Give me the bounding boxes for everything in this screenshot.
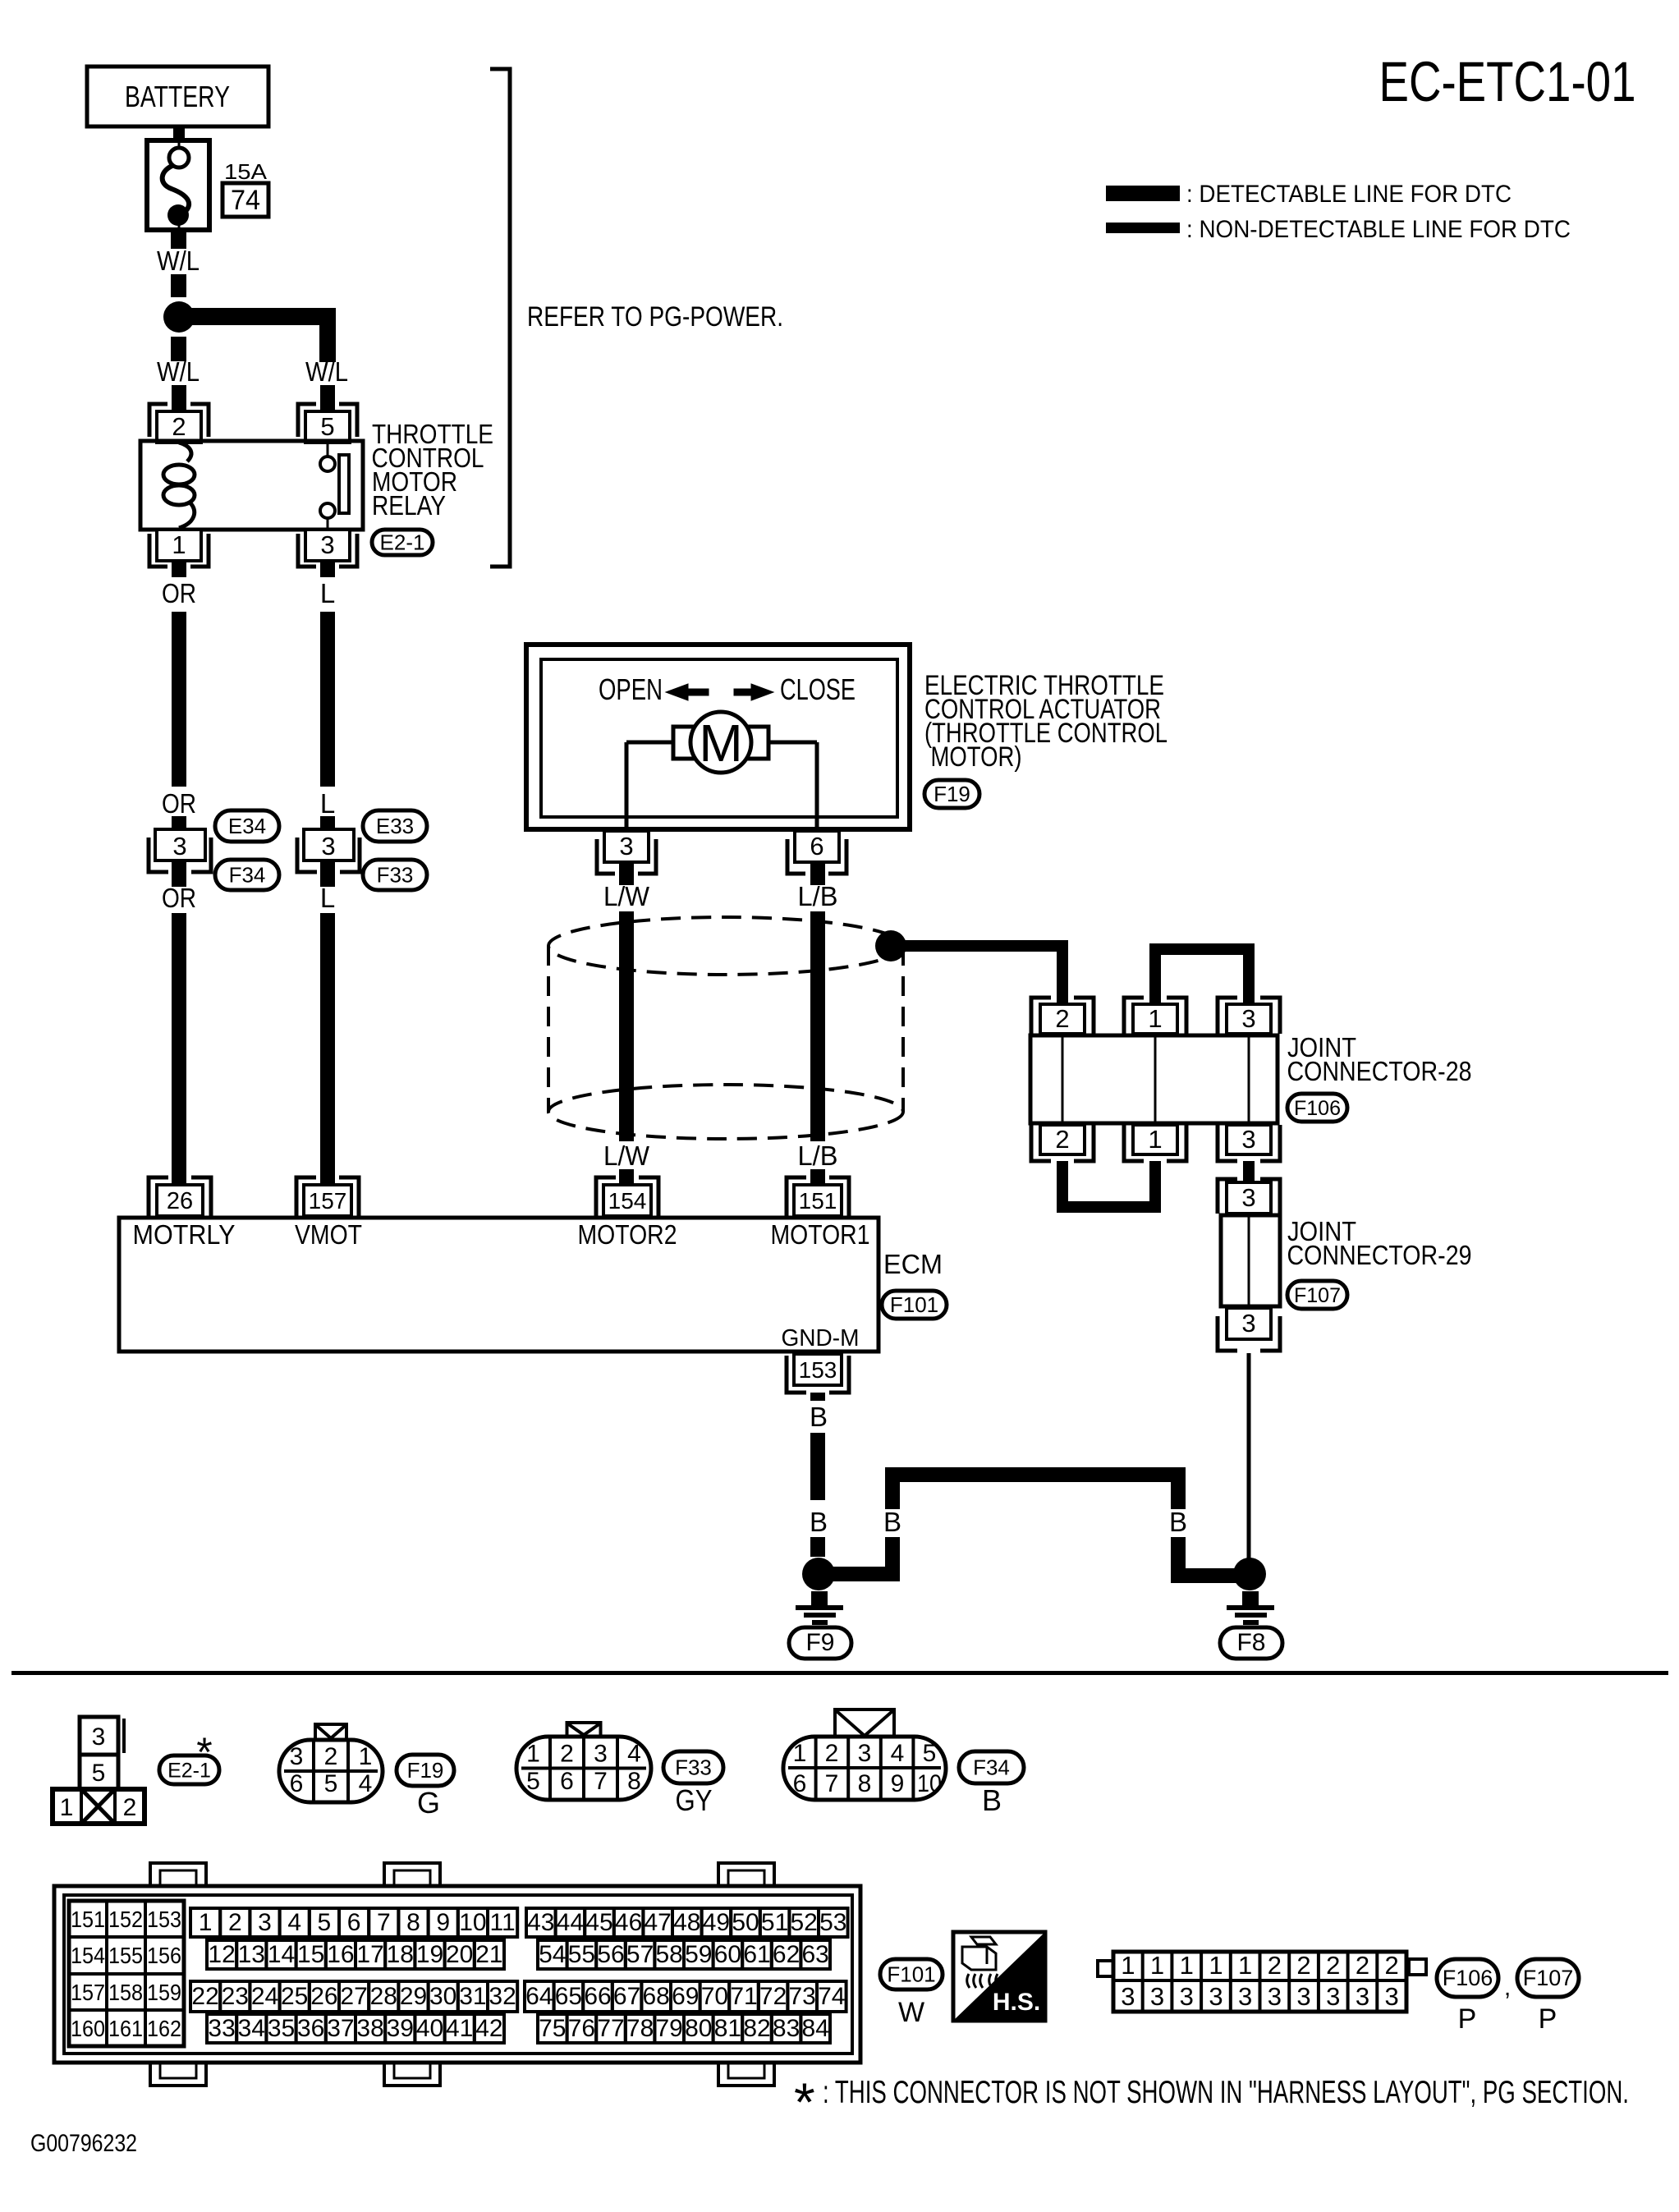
wire W/L node to relay pin 2	[171, 337, 186, 361]
actuator pin 6	[787, 831, 846, 874]
svg-text:74: 74	[231, 185, 260, 216]
ECM connector pins 75-84	[538, 2014, 830, 2043]
svg-text:34: 34	[238, 2015, 265, 2042]
svg-text:46: 46	[615, 1909, 642, 1936]
JC28 bottom pin 1	[1124, 1125, 1186, 1161]
svg-text:L/B: L/B	[798, 881, 838, 911]
wire OR relay pin1 down	[172, 559, 186, 577]
svg-text:50: 50	[732, 1909, 759, 1936]
svg-text:40: 40	[416, 2015, 443, 2042]
svg-text:3: 3	[1268, 1982, 1282, 2011]
label B 2	[810, 1507, 828, 1537]
svg-text:17: 17	[356, 1941, 383, 1968]
svg-text:F106: F106	[1443, 1966, 1493, 1990]
svg-text:F33: F33	[377, 863, 414, 888]
svg-text:5: 5	[324, 1770, 338, 1797]
ECM pin 26 MOTRLY	[149, 1177, 211, 1216]
wire L into connector E33	[320, 816, 335, 831]
svg-text:23: 23	[222, 1983, 249, 2010]
relay label	[372, 419, 494, 521]
relay connector E2-1	[372, 530, 433, 555]
svg-text:36: 36	[297, 2015, 324, 2042]
svg-text:72: 72	[759, 1983, 787, 2010]
svg-text:G00796232: G00796232	[30, 2130, 137, 2157]
svg-text:159: 159	[147, 1980, 181, 2005]
legend non-detectable line	[1106, 216, 1571, 243]
label L/B	[798, 881, 838, 911]
svg-text:12: 12	[208, 1941, 235, 1968]
ECM connector view outline	[54, 1863, 860, 2086]
svg-text:OR: OR	[162, 883, 196, 913]
figure id G00796232	[30, 2130, 137, 2157]
svg-text:28: 28	[370, 1983, 397, 2010]
svg-text:15A: 15A	[224, 159, 268, 184]
svg-text:162: 162	[147, 2016, 181, 2041]
fuse rating 15A	[224, 159, 268, 184]
separator line	[11, 1671, 1668, 1675]
svg-text:MOTOR1: MOTOR1	[771, 1219, 870, 1250]
svg-text:MOTRLY: MOTRLY	[133, 1219, 236, 1250]
svg-text:61: 61	[743, 1941, 770, 1968]
svg-text:G: G	[417, 1786, 440, 1820]
svg-text:3: 3	[172, 832, 186, 860]
label W/L	[157, 246, 200, 276]
wire OR to ECM pin 26	[172, 913, 186, 1185]
svg-text:F107: F107	[1294, 1284, 1341, 1307]
JC28 top pin 2	[1031, 998, 1094, 1034]
svg-text:14: 14	[268, 1941, 295, 1968]
svg-text:3: 3	[619, 832, 633, 860]
JC29 bottom pin 3	[1218, 1308, 1280, 1351]
svg-text:39: 39	[387, 2015, 414, 2042]
svg-text:3: 3	[1241, 1004, 1255, 1033]
svg-text:25: 25	[281, 1983, 308, 2010]
wire JC29 to ground F8	[1247, 1353, 1251, 1565]
ground F9	[796, 1591, 843, 1625]
svg-text:2: 2	[1055, 1125, 1069, 1154]
svg-text:5: 5	[526, 1768, 540, 1795]
svg-text:58: 58	[656, 1941, 683, 1968]
svg-text:67: 67	[613, 1983, 640, 2010]
svg-text:18: 18	[387, 1941, 414, 1968]
svg-text:10: 10	[917, 1770, 942, 1797]
actuator box outer	[526, 645, 910, 829]
svg-text:26: 26	[310, 1983, 337, 2010]
svg-text:L: L	[320, 578, 335, 608]
JC28 bottom pin 2	[1031, 1125, 1094, 1161]
svg-text:81: 81	[714, 2015, 741, 2042]
svg-text:77: 77	[597, 2015, 624, 2042]
ground F8	[1227, 1591, 1274, 1625]
svg-text:3: 3	[1296, 1982, 1310, 2011]
svg-text:56: 56	[597, 1941, 624, 1968]
svg-text:BATTERY: BATTERY	[125, 80, 230, 113]
connector view F19	[279, 1724, 383, 1802]
actuator box inner	[541, 659, 897, 817]
ECM box	[119, 1218, 878, 1352]
svg-text:: NON-DETECTABLE LINE FOR DTC: : NON-DETECTABLE LINE FOR DTC	[1186, 216, 1571, 243]
svg-text:153: 153	[147, 1907, 181, 1932]
svg-text:78: 78	[626, 2015, 654, 2042]
wire B from pin 153	[810, 1393, 825, 1401]
svg-text:B: B	[810, 1507, 828, 1537]
svg-text:M: M	[699, 714, 742, 773]
connector view E2-1	[53, 1717, 145, 1824]
svg-text:3: 3	[258, 1909, 272, 1936]
svg-text:1: 1	[1209, 1951, 1223, 1980]
svg-text:3: 3	[1209, 1982, 1223, 2011]
relay switch contact	[320, 441, 349, 530]
svg-text:33: 33	[208, 2015, 235, 2042]
legend detectable line	[1106, 181, 1512, 208]
label W/L left	[157, 356, 200, 387]
svg-text:1: 1	[172, 530, 186, 559]
ECM connector pins 43-53	[526, 1908, 848, 1937]
svg-text:10: 10	[459, 1909, 486, 1936]
svg-text:EC-ETC1-01: EC-ETC1-01	[1379, 50, 1636, 113]
svg-text:6: 6	[560, 1768, 574, 1795]
connector E33/F33 pin 3	[297, 829, 360, 872]
svg-text:59: 59	[685, 1941, 712, 1968]
svg-text:3: 3	[594, 1741, 608, 1768]
svg-text:2: 2	[324, 1743, 338, 1770]
svg-text:F19: F19	[934, 782, 970, 806]
wire L/B long	[810, 911, 825, 1141]
actuator pin 3	[597, 831, 656, 874]
svg-text:3: 3	[1326, 1982, 1340, 2011]
svg-text:3: 3	[858, 1740, 872, 1767]
label L/B 2	[798, 1140, 838, 1171]
svg-text:W/L: W/L	[157, 356, 200, 387]
svg-text:3: 3	[1241, 1309, 1255, 1338]
wire B bridge to F8	[829, 1467, 1236, 1583]
svg-text:30: 30	[429, 1983, 456, 2010]
svg-text:F34: F34	[973, 1755, 1010, 1780]
svg-text:F19: F19	[407, 1758, 444, 1783]
label OR 2	[162, 788, 196, 819]
svg-text:57: 57	[626, 1941, 654, 1968]
svg-text:55: 55	[568, 1941, 595, 1968]
svg-text:6: 6	[347, 1909, 361, 1936]
shield cylinder dashed	[548, 917, 903, 1139]
svg-text:B: B	[883, 1507, 901, 1537]
ECM pin 157 VMOT	[296, 1177, 359, 1216]
ECM connector pins 33-42	[207, 2014, 504, 2043]
motor brush right	[745, 727, 768, 759]
svg-text:F34: F34	[229, 863, 266, 888]
fuse 15A	[147, 140, 209, 230]
JC28 bottom pin 3	[1218, 1125, 1280, 1161]
svg-text:42: 42	[475, 2015, 502, 2042]
svg-text:F8: F8	[1236, 1629, 1265, 1656]
svg-text:153: 153	[799, 1357, 837, 1383]
svg-text:F107: F107	[1523, 1966, 1574, 1990]
actuator connector F19	[924, 780, 979, 808]
svg-text:P: P	[1458, 2003, 1477, 2035]
svg-text:53: 53	[819, 1909, 846, 1936]
svg-text:F106: F106	[1294, 1097, 1341, 1120]
svg-text:1: 1	[1238, 1951, 1252, 1980]
svg-text:84: 84	[802, 2015, 829, 2042]
wire battery to fuse	[173, 126, 185, 142]
svg-text:B: B	[810, 1402, 828, 1432]
svg-text:B: B	[982, 1783, 1002, 1817]
ECM connector pins 54-63	[538, 1940, 830, 1969]
label B bridge left	[883, 1507, 901, 1537]
svg-text:REFER TO PG-POWER.: REFER TO PG-POWER.	[527, 301, 783, 333]
wire L/B to ECM pin 151	[810, 1169, 825, 1185]
svg-text:1: 1	[526, 1741, 540, 1768]
svg-text:L/W: L/W	[603, 1140, 650, 1171]
svg-text:83: 83	[773, 2015, 800, 2042]
wire stub into relay pin 2	[172, 385, 186, 413]
svg-text:37: 37	[327, 2015, 354, 2042]
actuator label	[924, 670, 1168, 773]
svg-text:22: 22	[191, 1983, 218, 2010]
relay pin 5	[298, 404, 357, 443]
svg-text:44: 44	[557, 1909, 584, 1936]
svg-text:1: 1	[1180, 1951, 1194, 1980]
svg-text:9: 9	[891, 1770, 905, 1797]
svg-text:160: 160	[71, 2016, 105, 2041]
ECM pin 153 GND-M	[787, 1354, 849, 1393]
svg-text:3: 3	[1150, 1982, 1164, 2011]
svg-text:27: 27	[340, 1983, 367, 2010]
svg-text:74: 74	[818, 1983, 845, 2010]
svg-text:*: *	[794, 2072, 815, 2132]
bracket refer to PG-POWER	[490, 69, 510, 567]
wire OR below connector	[172, 860, 186, 887]
svg-text:66: 66	[584, 1983, 611, 2010]
ECM pin names	[133, 1219, 870, 1250]
svg-text:7: 7	[594, 1768, 608, 1795]
wire JC28 pin3 to JC29	[1243, 1161, 1255, 1182]
battery	[87, 67, 268, 126]
svg-text:54: 54	[539, 1941, 566, 1968]
svg-text:W/L: W/L	[305, 356, 348, 387]
svg-text:73: 73	[789, 1983, 816, 2010]
svg-text:E33: E33	[376, 814, 414, 838]
svg-text:3: 3	[1385, 1982, 1399, 2011]
svg-text:1: 1	[1148, 1125, 1162, 1154]
wire L to ECM pin 157	[320, 913, 335, 1185]
wire B dash	[810, 1537, 825, 1557]
wire L/W stub	[619, 860, 634, 885]
svg-text:3: 3	[1241, 1125, 1255, 1154]
svg-text:151: 151	[799, 1188, 837, 1214]
svg-text:156: 156	[147, 1943, 181, 1968]
JC28 top pin 1	[1124, 998, 1186, 1034]
node shield drain	[875, 930, 906, 961]
svg-text:P: P	[1539, 2003, 1557, 2035]
label L 2	[320, 788, 335, 819]
svg-text:2: 2	[1356, 1951, 1369, 1980]
svg-text:2: 2	[1296, 1951, 1310, 1980]
svg-text:29: 29	[400, 1983, 427, 2010]
svg-text:ECM: ECM	[883, 1249, 943, 1279]
svg-text:F33: F33	[675, 1755, 712, 1780]
wire shield to JC28 pin 2	[891, 940, 1068, 1007]
wire L below connector	[320, 860, 335, 887]
svg-text:*: *	[196, 1729, 212, 1775]
svg-text:B: B	[1169, 1507, 1187, 1537]
JC29 label	[1287, 1216, 1472, 1270]
svg-text:71: 71	[730, 1983, 757, 2010]
JC29 connector F107	[1287, 1281, 1347, 1309]
svg-text:26: 26	[167, 1188, 193, 1214]
ECM connector F101 ref	[880, 1959, 943, 2028]
svg-text:47: 47	[645, 1909, 672, 1936]
ECM connector pins 12-21	[207, 1940, 504, 1969]
wire L/W long	[619, 911, 634, 1141]
svg-text:158: 158	[108, 1980, 143, 2005]
svg-text:2: 2	[172, 412, 186, 441]
wire L/B stub	[810, 860, 825, 885]
svg-text:41: 41	[446, 2015, 473, 2042]
ECM pin 154 MOTOR2	[596, 1177, 658, 1216]
svg-text:19: 19	[416, 1941, 443, 1968]
wire OR long	[172, 612, 186, 787]
wire L/W to ECM pin 154	[619, 1169, 634, 1185]
svg-text:161: 161	[108, 2016, 143, 2041]
svg-text:4: 4	[627, 1741, 641, 1768]
ECM connector pins 22-32	[190, 1981, 517, 2012]
ECM connector left grid pins 151-162	[69, 1901, 184, 2046]
wire L long	[320, 612, 335, 787]
svg-text:1: 1	[1150, 1951, 1164, 1980]
svg-text:H.S.: H.S.	[993, 1989, 1040, 2016]
wire motor right to pin 6	[768, 742, 817, 831]
svg-text:9: 9	[436, 1909, 450, 1936]
label L/W	[603, 881, 650, 911]
svg-text:76: 76	[568, 2015, 595, 2042]
svg-text:155: 155	[108, 1943, 143, 1968]
svg-text:2: 2	[560, 1741, 574, 1768]
svg-text:3: 3	[321, 832, 335, 860]
svg-text:F9: F9	[805, 1629, 834, 1656]
svg-text:69: 69	[672, 1983, 699, 2010]
svg-text:157: 157	[309, 1188, 347, 1214]
svg-text:8: 8	[858, 1770, 872, 1797]
svg-text:2: 2	[1385, 1951, 1399, 1980]
joint connector F107 ref	[1517, 1959, 1579, 1997]
svg-text:3: 3	[1238, 1982, 1252, 2011]
svg-text:152: 152	[108, 1907, 143, 1932]
JC28 connector F106	[1287, 1094, 1347, 1122]
relay pin 1	[149, 530, 209, 567]
H.S. view icon	[953, 1932, 1045, 2021]
note REFER TO PG-POWER	[527, 301, 783, 333]
svg-text:157: 157	[71, 1980, 105, 2005]
motor M	[690, 712, 751, 773]
svg-text:64: 64	[525, 1983, 553, 2010]
svg-text:75: 75	[539, 2015, 566, 2042]
svg-text:15: 15	[297, 1941, 324, 1968]
svg-text:68: 68	[643, 1983, 670, 2010]
svg-text:RELAY: RELAY	[372, 490, 446, 521]
footnote asterisk	[794, 2072, 1629, 2132]
JC28 label	[1287, 1032, 1472, 1086]
svg-text:4: 4	[891, 1740, 905, 1767]
svg-text:5: 5	[92, 1760, 106, 1787]
svg-text:MOTOR2: MOTOR2	[578, 1219, 677, 1250]
svg-text:63: 63	[802, 1941, 829, 1968]
label CLOSE	[780, 672, 856, 706]
svg-text:6: 6	[793, 1770, 807, 1797]
svg-text:32: 32	[489, 1983, 516, 2010]
ECM pin 151 MOTOR1	[787, 1177, 849, 1216]
connector F33 ref	[663, 1751, 723, 1817]
wire motor left to pin 3	[626, 742, 673, 831]
svg-text:2: 2	[825, 1740, 839, 1767]
svg-text:F101: F101	[890, 1292, 938, 1317]
svg-text:35: 35	[268, 2015, 295, 2042]
title EC-ETC1-01	[1379, 50, 1636, 113]
svg-text:48: 48	[673, 1909, 700, 1936]
svg-text:,: ,	[1504, 1974, 1511, 2001]
svg-text:3: 3	[1241, 1183, 1255, 1212]
relay pin 2	[149, 404, 209, 443]
svg-text:: DETECTABLE LINE FOR DTC: : DETECTABLE LINE FOR DTC	[1186, 181, 1512, 208]
wire W/L fuse to node	[171, 230, 186, 297]
connector E34	[215, 810, 279, 842]
svg-text:82: 82	[743, 2015, 770, 2042]
label OPEN	[599, 672, 663, 706]
svg-text:79: 79	[656, 2015, 683, 2042]
joint connector F106 ref	[1437, 1959, 1511, 2001]
svg-text:151: 151	[71, 1907, 105, 1932]
node W/L junction	[163, 301, 195, 333]
label L/W 2	[603, 1140, 650, 1171]
JC28 body	[1030, 1035, 1278, 1123]
svg-text:OPEN: OPEN	[599, 672, 663, 706]
svg-text:L: L	[320, 883, 335, 913]
wire OR into connector E34	[172, 816, 186, 831]
arrow close (right)	[734, 684, 773, 700]
svg-text:3: 3	[1121, 1982, 1135, 2011]
svg-text:OR: OR	[162, 788, 196, 819]
connector F33 ref	[363, 860, 427, 890]
wire JC28 pin1-pin3 top U	[1155, 949, 1249, 1007]
wire W/L branch to relay pin 5	[179, 308, 336, 362]
svg-text:4: 4	[287, 1909, 301, 1936]
ECM connector pins 1-11	[190, 1908, 517, 1937]
svg-text:2: 2	[228, 1909, 242, 1936]
svg-text:70: 70	[701, 1983, 728, 2010]
svg-text:154: 154	[71, 1943, 105, 1968]
svg-text:2: 2	[1055, 1004, 1069, 1033]
connector E34/F34 pin 3	[149, 829, 211, 872]
label B	[810, 1402, 828, 1432]
connector view F33	[516, 1723, 651, 1800]
label L	[320, 578, 335, 608]
svg-text:GY: GY	[676, 1783, 713, 1817]
svg-text:80: 80	[685, 2015, 712, 2042]
svg-text:E2-1: E2-1	[380, 530, 425, 555]
label B bridge right	[1169, 1507, 1187, 1537]
node ground F8 junction	[1233, 1558, 1266, 1590]
svg-text:3: 3	[1180, 1982, 1194, 2011]
svg-text:OR: OR	[162, 578, 196, 608]
svg-text:2: 2	[123, 1794, 137, 1821]
label OR 3	[162, 883, 196, 913]
svg-text:1: 1	[60, 1794, 74, 1821]
connector F34 ref	[215, 860, 279, 890]
motor brush left	[673, 727, 696, 759]
svg-text:L/B: L/B	[798, 1140, 838, 1171]
labels P P	[1458, 2003, 1557, 2035]
relay coil	[163, 443, 195, 528]
